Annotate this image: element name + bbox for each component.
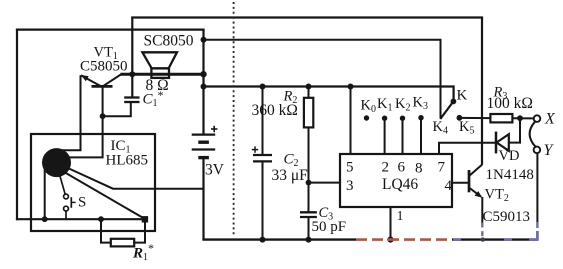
capacitor C2 xyxy=(252,146,272,161)
wire: Y lead down (solid part) xyxy=(536,153,538,222)
svg-text:33 μF: 33 μF xyxy=(272,167,309,184)
node: junction dot pin5 branch on bus xyxy=(348,84,354,90)
node: K pole dot xyxy=(451,99,457,105)
svg-text:100 kΩ: 100 kΩ xyxy=(487,95,533,112)
resistor R1 xyxy=(101,219,145,246)
wire: C3 top lead xyxy=(308,183,310,212)
diode VD xyxy=(496,132,509,154)
terminal square node xyxy=(142,216,148,222)
svg-text:K5: K5 xyxy=(459,119,474,137)
wire: pin 1 stub down to bottom rail xyxy=(390,207,392,240)
terminal X xyxy=(534,115,541,122)
node: junction dot R3/VD anode xyxy=(517,115,523,121)
wire: main bus y=86.5 to switch K pole xyxy=(204,87,454,100)
resistor R3 xyxy=(490,114,512,122)
node: junction dot R2/C3/pin3 xyxy=(306,180,312,186)
node: junction dot base/C1 xyxy=(100,113,106,119)
wire: C2 top lead xyxy=(262,87,264,155)
contact K0 xyxy=(364,115,369,120)
wire: speaker wire thick xyxy=(121,73,204,76)
svg-text:K4: K4 xyxy=(433,119,448,137)
node: junction dot at (203.5,74.2) xyxy=(200,71,206,77)
wire: C1 bottom lead elbow to base line xyxy=(103,103,131,116)
node: junction dot R2 top xyxy=(306,84,312,90)
capacitor C1 xyxy=(124,98,139,103)
wire: right vertical from top bus down to VD/VT2 collector node xyxy=(481,18,483,165)
svg-text:K1: K1 xyxy=(377,96,392,114)
svg-text:X: X xyxy=(544,111,556,128)
wire: bottom rail blue dash artifacts xyxy=(453,231,538,240)
wire: mic slant to battery-minus wire xyxy=(65,167,204,189)
svg-text:VT2: VT2 xyxy=(485,187,509,205)
wire: VT1 base vertical down to mic port xyxy=(68,86,103,157)
wire: pin 5 stub xyxy=(350,87,352,155)
wire: outer frame left vertical xyxy=(16,29,18,221)
wire: outer frame top (left loop) xyxy=(16,29,205,31)
svg-text:6: 6 xyxy=(398,160,406,176)
contact K3 with stub to pin 8 xyxy=(418,115,423,154)
wire: battery negative lead down to bottom rail xyxy=(202,159,204,240)
svg-text:360 kΩ: 360 kΩ xyxy=(252,102,298,119)
switch S xyxy=(60,176,76,220)
contact K5 xyxy=(457,115,463,121)
svg-text:K0: K0 xyxy=(361,98,376,116)
wire: K switch feed from node 40 to K4 contact xyxy=(204,40,441,119)
terminal Y xyxy=(534,147,541,154)
wire: mic slant to terminal square xyxy=(62,171,145,219)
svg-text:7: 7 xyxy=(438,160,446,176)
node: junction dot collector/speaker/C1 xyxy=(129,71,135,77)
jack arc between X and Y xyxy=(530,121,536,146)
node: junction dot pin1/bottom rail xyxy=(387,237,393,243)
wire: to pin 3 of LQ46 xyxy=(309,182,341,184)
node: junction dot C2 top xyxy=(260,84,266,90)
svg-text:VD: VD xyxy=(499,148,520,164)
microphone (electret) of IC1 xyxy=(42,148,71,177)
svg-text:3V: 3V xyxy=(205,162,225,179)
wire: top bus horizontal xyxy=(131,16,483,18)
wire: bottom-left common wire to terminal square xyxy=(16,218,145,220)
svg-text:LQ46: LQ46 xyxy=(382,176,418,193)
wire: VD anode branch xyxy=(509,118,520,142)
wire: C2 bottom lead xyxy=(262,163,264,240)
wire: bottom rail red dashed part xyxy=(356,238,452,241)
svg-text:Y: Y xyxy=(544,142,555,159)
wire: VT1 emitter vertical down to mic port xyxy=(62,75,81,150)
IC U1 box IC1 HL685 xyxy=(31,134,155,231)
transistor VT1 xyxy=(81,74,121,86)
svg-text:5: 5 xyxy=(346,160,354,176)
resistor R2 xyxy=(304,87,313,183)
capacitor C3 xyxy=(300,212,317,217)
svg-text:C59013: C59013 xyxy=(483,209,531,225)
wire: battery positive feed vertical (x=203.5) xyxy=(202,30,204,135)
wire: switch K wiper xyxy=(440,103,452,119)
node: junction dot C2 bottom xyxy=(260,237,266,243)
node: junction dot R1 branch xyxy=(98,216,104,222)
node: junction dot C3 bottom xyxy=(306,237,312,243)
wire: C3 bottom lead xyxy=(308,217,310,240)
contact K1 with stub to pin 2 xyxy=(382,116,387,155)
svg-text:50 pF: 50 pF xyxy=(312,219,347,235)
svg-text:K3: K3 xyxy=(413,95,428,113)
IC U2 box LQ46 xyxy=(340,154,452,207)
svg-text:8: 8 xyxy=(415,161,423,177)
svg-text:S: S xyxy=(78,195,86,211)
divider dotted line xyxy=(233,2,235,236)
svg-text:1N4148: 1N4148 xyxy=(486,167,534,183)
wire: VT2 emitter down (blue dashed part) xyxy=(481,223,483,240)
svg-text:4: 4 xyxy=(445,178,453,194)
wire: VT2 emitter down (solid part) xyxy=(481,197,483,223)
wire: K5 to R3 lead xyxy=(459,117,490,119)
wire: bottom rail right part black xyxy=(452,238,538,240)
node: junction dot mic lead / common wire xyxy=(42,216,48,222)
svg-text:HL685: HL685 xyxy=(106,153,149,169)
svg-text:K: K xyxy=(457,88,468,104)
svg-text:1: 1 xyxy=(397,209,404,224)
wire: vertical from top bus to C1 top plate through speaker-wire node xyxy=(131,18,133,97)
svg-text:R1*: R1* xyxy=(132,241,154,263)
node: junction dot at (203.5,40) xyxy=(201,37,207,43)
wire: bottom rail solid black left part xyxy=(202,238,356,240)
wire: pin 4 to VT2 base xyxy=(452,182,469,184)
svg-text:2: 2 xyxy=(382,160,390,176)
node: junction dot at (203.5,86.5) xyxy=(201,84,207,90)
svg-text:K2: K2 xyxy=(395,96,410,114)
node: small dot VT2 emitter at rail xyxy=(481,237,485,241)
battery GB 3V xyxy=(192,126,218,158)
svg-text:SC8050: SC8050 xyxy=(144,33,194,50)
wire: mic left lead down to common xyxy=(44,169,46,220)
wire: pin 7 link to VD cathode node xyxy=(439,143,496,154)
svg-text:3: 3 xyxy=(346,178,354,194)
contact K2 with stub to pin 6 xyxy=(400,116,405,155)
wire: R3 right lead to X terminal xyxy=(512,117,533,119)
speaker SC8050 xyxy=(142,52,177,78)
wire: Y lead down (blue dashed part) xyxy=(536,222,538,240)
svg-text:C58050: C58050 xyxy=(80,59,128,75)
transistor VT2 xyxy=(469,165,482,198)
